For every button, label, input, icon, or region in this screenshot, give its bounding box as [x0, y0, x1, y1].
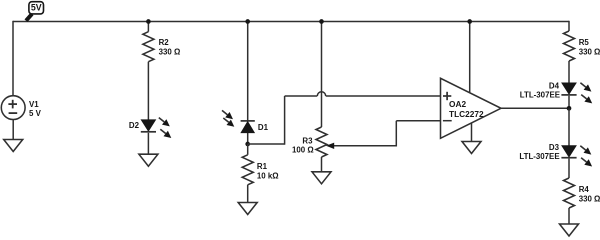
label R4 330	[579, 185, 600, 203]
voltage source V1	[1, 96, 25, 120]
svg-text:TLC2272: TLC2272	[449, 109, 484, 119]
svg-text:D1: D1	[258, 123, 269, 132]
wire op-amp ground stem	[471, 123, 473, 142]
svg-text:V1: V1	[29, 100, 39, 109]
svg-text:OA2: OA2	[449, 99, 466, 109]
label R5 330	[579, 38, 600, 56]
wire D3 to R4	[568, 159, 570, 178]
op-amp OA2	[441, 78, 502, 138]
svg-text:R4: R4	[579, 185, 590, 194]
potentiometer R3	[316, 127, 327, 157]
wire R3 tap down from rail	[321, 22, 323, 128]
svg-text:5 V: 5 V	[29, 109, 42, 118]
wire R4 to ground	[568, 208, 570, 224]
wire R1 top	[247, 144, 249, 155]
label D1	[258, 123, 269, 132]
wire D1 tap down from rail	[247, 22, 249, 121]
svg-text:D3: D3	[549, 143, 560, 152]
ground R3	[312, 172, 331, 184]
photodiode D1	[241, 121, 255, 133]
node rail-R2 junction	[146, 19, 151, 24]
resistor R2	[143, 32, 154, 62]
svg-text:330 Ω: 330 Ω	[159, 47, 181, 56]
label R2 330	[159, 38, 181, 56]
svg-text:330 Ω: 330 Ω	[579, 194, 600, 203]
svg-text:LTL-307EE: LTL-307EE	[519, 152, 559, 161]
wire op-amp output to node B	[501, 107, 569, 109]
wire top 5V rail	[13, 21, 569, 23]
wire V1 top (rail corner down to V1)	[12, 21, 14, 96]
wire R3 to ground	[321, 157, 323, 172]
svg-text:330 Ω: 330 Ω	[579, 47, 600, 56]
svg-text:R5: R5	[579, 38, 590, 47]
resistor R4	[564, 178, 575, 208]
wire node B to D3	[568, 108, 570, 146]
node A (D1/R1/+in junction)	[245, 142, 250, 147]
svg-text:R3: R3	[302, 136, 313, 145]
node rail-R3 junction	[319, 19, 324, 24]
wire R1 to ground	[247, 185, 249, 203]
label D4 LTL-307EE	[520, 82, 560, 100]
D3 emission arrows	[580, 146, 592, 167]
svg-text:R2: R2	[159, 38, 170, 47]
svg-text:LTL-307EE: LTL-307EE	[520, 91, 560, 100]
label D3 LTL-307EE	[519, 143, 559, 161]
label D2	[129, 121, 140, 130]
ground V1	[4, 140, 23, 152]
ground R1	[238, 203, 257, 215]
svg-text:R1: R1	[257, 162, 268, 171]
LED D3	[561, 146, 576, 158]
svg-text:5V: 5V	[31, 2, 42, 12]
LED D2	[141, 120, 156, 132]
wire D4 to node B	[568, 96, 570, 109]
wire R5 to D4	[568, 61, 570, 83]
ground op-amp	[462, 142, 481, 154]
label R3 100	[292, 136, 314, 154]
wire D1 to node A	[247, 133, 249, 144]
D1 incident arrows	[222, 110, 234, 126]
svg-text:D4: D4	[549, 82, 560, 91]
LED D4	[561, 83, 576, 95]
label R1 10k	[257, 162, 279, 180]
label OA2 TLC2272	[449, 99, 484, 119]
D4 emission arrows	[580, 83, 592, 104]
D2 emission arrows	[159, 118, 172, 138]
wire V1 bottom to ground	[12, 119, 14, 139]
resistor R1	[242, 155, 253, 185]
label V1	[29, 100, 42, 118]
R3 wiper arrow	[326, 143, 334, 149]
svg-text:100 Ω: 100 Ω	[292, 146, 314, 155]
node B (out/D4/D3 junction)	[567, 106, 572, 111]
wire node A to op-amp +in (with hop)	[248, 92, 441, 145]
node rail-D1 junction	[245, 19, 250, 24]
power flag 5V	[26, 2, 44, 21]
svg-text:D2: D2	[129, 121, 140, 130]
resistor R5	[564, 31, 575, 61]
ground R4	[560, 224, 579, 236]
wire D2 to ground	[147, 133, 149, 154]
wire R2 to D2	[147, 62, 149, 120]
svg-text:10 kΩ: 10 kΩ	[257, 171, 279, 180]
ground D2	[139, 154, 158, 166]
wire R3 wiper to op-amp -in	[334, 121, 441, 147]
node rail-opamp-power junction	[467, 19, 472, 24]
wire op-amp power from rail	[469, 22, 471, 93]
wire R2 tap down from rail	[147, 22, 149, 32]
wire R5 from rail corner	[568, 21, 570, 31]
